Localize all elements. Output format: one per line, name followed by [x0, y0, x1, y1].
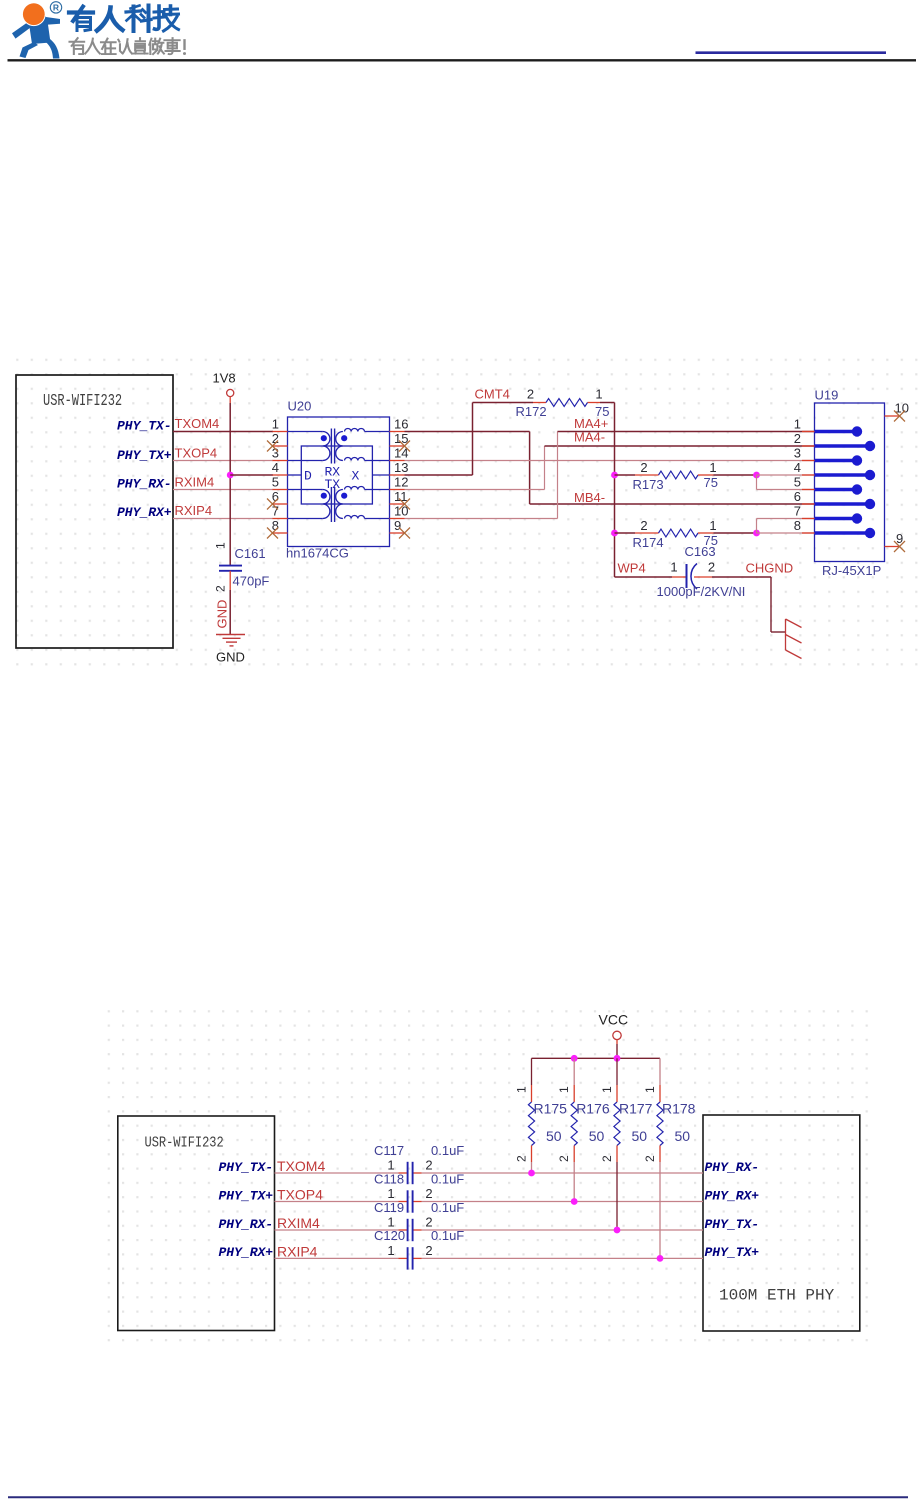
svg-text:2: 2 [425, 1186, 432, 1201]
svg-text:PHY_RX+: PHY_RX+ [219, 1245, 274, 1260]
U19 pin numbers 1-8 [794, 416, 801, 533]
svg-text:2: 2 [515, 1155, 529, 1162]
svg-text:0.1uF: 0.1uF [431, 1143, 464, 1158]
wire MA4+ [558, 431, 815, 433]
svg-text:hn1674CG: hn1674CG [286, 546, 349, 561]
wire RXIM4 [173, 489, 273, 491]
resistor R177 [614, 1058, 620, 1230]
svg-text:PHY_TX-: PHY_TX- [705, 1217, 760, 1232]
wire CMT4 [473, 402, 615, 404]
svg-text:C118: C118 [374, 1171, 404, 1186]
junction CMT4/R173 [611, 472, 618, 479]
wire RXIP4 (lower) right segment [413, 1257, 703, 1259]
wire C161 to GND [229, 590, 231, 634]
C118 pin numbers [387, 1186, 432, 1201]
svg-text:R174: R174 [633, 535, 664, 550]
svg-text:1: 1 [387, 1243, 394, 1258]
svg-text:C120: C120 [374, 1228, 405, 1243]
R174 pin numbers [640, 518, 716, 533]
svg-text:1: 1 [709, 460, 716, 475]
C161 pin numbers [214, 542, 228, 592]
capacitor C163 [687, 564, 698, 590]
svg-text:GND: GND [216, 650, 245, 665]
svg-text:7: 7 [794, 503, 801, 518]
svg-text:TX: TX [325, 477, 341, 492]
junction R174 out [753, 530, 760, 537]
svg-text:1: 1 [515, 1086, 529, 1093]
wire pin16 to MB4- vertical [405, 432, 530, 505]
power port VCC [599, 1012, 629, 1045]
logo slogan 有人在认真做事 [70, 38, 187, 55]
svg-text:4: 4 [794, 460, 801, 475]
svg-text:2: 2 [640, 460, 647, 475]
C163 pin numbers [670, 560, 715, 575]
C117 pin numbers [387, 1158, 432, 1173]
svg-text:12: 12 [394, 474, 408, 489]
svg-text:1: 1 [272, 416, 279, 431]
module box USR-WIFI232 (lower) [118, 1116, 275, 1331]
U20 left pin stubs [273, 432, 288, 534]
svg-text:C119: C119 [374, 1200, 404, 1215]
junction CMT4/R174 [611, 530, 618, 537]
svg-text:RJ-45X1P: RJ-45X1P [822, 563, 881, 578]
svg-text:TXOP4: TXOP4 [175, 446, 218, 461]
svg-text:5: 5 [272, 474, 279, 489]
connector U19 RJ-45X1P body [815, 403, 885, 562]
wire RXIP4 [173, 518, 273, 520]
capacitor C118 [408, 1190, 413, 1212]
logo registered trademark symbol [50, 2, 61, 13]
svg-text:5: 5 [794, 474, 801, 489]
svg-text:PHY_TX-: PHY_TX- [117, 419, 172, 434]
svg-text:X: X [352, 469, 360, 484]
U20 no-connect X pin11 [399, 499, 410, 510]
svg-text:PHY_TX-: PHY_TX- [219, 1160, 274, 1175]
svg-text:WP4: WP4 [618, 561, 646, 576]
junction rail/R177 [614, 1055, 621, 1062]
U19 no-connect X pin10 [894, 411, 905, 422]
svg-text:3: 3 [794, 445, 801, 460]
svg-text:50: 50 [546, 1128, 562, 1144]
wire TXOP4 [173, 460, 273, 462]
svg-text:7: 7 [272, 503, 279, 518]
svg-text:MB4-: MB4- [574, 490, 605, 505]
svg-text:2: 2 [708, 560, 715, 575]
R177 pin numbers [600, 1086, 614, 1162]
svg-text:TXOM4: TXOM4 [277, 1158, 325, 1174]
svg-text:1: 1 [794, 416, 801, 431]
svg-text:R176: R176 [576, 1101, 610, 1117]
logo person icon [12, 2, 60, 58]
svg-text:0.1uF: 0.1uF [431, 1228, 464, 1243]
U20 no-connect X pin2 [267, 441, 278, 452]
svg-text:9: 9 [394, 518, 401, 533]
U20 no-connect X pin15 [399, 441, 410, 452]
wire R173 branch to RJ45 pin5 [757, 475, 815, 490]
svg-text:PHY_RX+: PHY_RX+ [705, 1188, 760, 1203]
wire pin10 to MA4+ [405, 432, 558, 519]
svg-text:2: 2 [527, 387, 534, 402]
svg-text:8: 8 [794, 518, 801, 533]
svg-text:2: 2 [214, 585, 228, 592]
svg-text:PHY_RX-: PHY_RX- [219, 1217, 274, 1232]
svg-text:RXIM4: RXIM4 [175, 475, 215, 490]
junction R173 out [753, 472, 760, 479]
wire MB4- [530, 503, 815, 505]
ground symbol GND [216, 635, 245, 646]
svg-text:PHY_RX-: PHY_RX- [705, 1160, 760, 1175]
svg-text:50: 50 [632, 1128, 648, 1144]
svg-text:2: 2 [425, 1158, 432, 1173]
U20 no-connect X pin8 [267, 528, 278, 539]
svg-text:3: 3 [272, 445, 279, 460]
svg-text:2: 2 [557, 1155, 571, 1162]
svg-text:R175: R175 [534, 1101, 568, 1117]
header blue underline [696, 51, 887, 54]
C120 pin numbers [387, 1243, 432, 1258]
svg-text:USR-WIFI232: USR-WIFI232 [43, 392, 122, 411]
wire VCC rail [532, 1057, 661, 1059]
R176 pin numbers [557, 1086, 571, 1162]
wire RXIM4 (lower) left segment [275, 1229, 408, 1231]
svg-text:1: 1 [557, 1086, 571, 1093]
footer rule [8, 1496, 908, 1498]
svg-text:RXIP4: RXIP4 [175, 503, 213, 518]
wire MA4- [545, 445, 815, 447]
svg-text:U19: U19 [815, 388, 839, 403]
svg-text:50: 50 [675, 1128, 691, 1144]
U19 left pin stubs [802, 432, 815, 534]
wire pin4 center tap [230, 474, 273, 476]
wire RXIP4 (lower) left segment [275, 1257, 408, 1259]
chassis ground symbol [786, 619, 802, 659]
svg-text:RXIM4: RXIM4 [277, 1215, 320, 1231]
svg-text:1: 1 [595, 387, 602, 402]
svg-text:RXIP4: RXIP4 [277, 1244, 318, 1260]
svg-text:1: 1 [643, 1086, 657, 1093]
wire pin14 to RJ45 pin3 [405, 460, 815, 462]
svg-text:VCC: VCC [599, 1012, 629, 1028]
wire 1V8 vertical [229, 403, 231, 565]
wire R173 to RJ45 pin4 [757, 474, 815, 476]
U20 right pin stubs [390, 432, 405, 534]
wire CMT4 vertical to WP4 [614, 403, 616, 578]
svg-text:CMT4: CMT4 [475, 387, 510, 402]
svg-text:1: 1 [709, 518, 716, 533]
svg-text:1000pF/2KV/NI: 1000pF/2KV/NI [657, 584, 746, 599]
svg-text:U20: U20 [288, 399, 312, 414]
svg-text:PHY_TX+: PHY_TX+ [117, 448, 172, 463]
R175 pin numbers [515, 1086, 529, 1162]
logo text 有人科技 [69, 6, 179, 32]
svg-text:1: 1 [387, 1158, 394, 1173]
resistor R175 [528, 1058, 534, 1173]
wire pin13 up to CMT4 [405, 403, 473, 476]
transformer U20 body [288, 417, 390, 547]
svg-text:R172: R172 [516, 404, 547, 419]
svg-text:1: 1 [387, 1186, 394, 1201]
svg-text:R178: R178 [662, 1101, 696, 1117]
svg-text:1: 1 [670, 560, 677, 575]
power port 1V8 [213, 371, 236, 404]
svg-text:GND: GND [215, 600, 230, 629]
svg-text:C163: C163 [685, 544, 716, 559]
U20 right pin numbers 16-9 [394, 416, 408, 533]
wire RXIM4 (lower) right segment [413, 1229, 703, 1231]
junction R178 / wire [657, 1255, 664, 1262]
wire TXOP4 (lower) left segment [275, 1201, 408, 1203]
R172 pin numbers [527, 387, 603, 402]
svg-text:USR-WIFI232: USR-WIFI232 [145, 1135, 224, 1152]
U19 pin 9 stub [885, 546, 900, 548]
module box 100M ETH PHY [703, 1115, 860, 1331]
svg-text:6: 6 [794, 489, 801, 504]
capacitor C161 [219, 566, 242, 590]
wire VCC drop [616, 1044, 618, 1058]
junction R177 / wire [614, 1227, 621, 1234]
C119 pin numbers [387, 1215, 432, 1230]
svg-text:CHGND: CHGND [746, 561, 794, 576]
svg-text:1: 1 [214, 542, 228, 549]
header rule [8, 59, 917, 61]
junction R175 / wire [528, 1170, 535, 1177]
wire TXOM4 (lower) right segment [413, 1172, 703, 1174]
svg-text:100M ETH PHY: 100M ETH PHY [719, 1287, 835, 1305]
resistor R178 [657, 1058, 663, 1258]
svg-text:1: 1 [600, 1086, 614, 1093]
resistor R176 [571, 1058, 577, 1201]
svg-text:2: 2 [425, 1243, 432, 1258]
R178 pin numbers [643, 1086, 657, 1162]
svg-text:TXOP4: TXOP4 [277, 1187, 323, 1203]
capacitor C120 [408, 1247, 413, 1269]
svg-text:PHY_RX+: PHY_RX+ [117, 505, 172, 520]
svg-text:2: 2 [640, 518, 647, 533]
svg-text:MA4+: MA4+ [574, 416, 608, 431]
svg-text:R173: R173 [633, 477, 664, 492]
junction R176 / wire [571, 1198, 578, 1205]
svg-text:75: 75 [704, 475, 718, 490]
svg-text:470pF: 470pF [233, 574, 270, 589]
svg-text:R177: R177 [619, 1101, 653, 1117]
U20 no-connect X pin6 [267, 499, 278, 510]
svg-text:C161: C161 [235, 546, 266, 561]
svg-text:TXOM4: TXOM4 [175, 416, 220, 431]
wire R174 to RJ45 pin8 [757, 532, 815, 534]
svg-text:13: 13 [394, 460, 408, 475]
svg-text:C117: C117 [374, 1143, 404, 1158]
svg-text:2: 2 [794, 431, 801, 446]
capacitor C119 [408, 1219, 413, 1241]
svg-text:1V8: 1V8 [213, 371, 236, 386]
svg-text:0.1uF: 0.1uF [431, 1171, 464, 1186]
svg-text:2: 2 [600, 1155, 614, 1162]
svg-text:11: 11 [394, 489, 408, 504]
U20 left pin numbers 1-8 [272, 416, 279, 533]
wire pin12 to MA4- [405, 446, 545, 490]
wire C163 to CHGND [694, 577, 786, 632]
U20 no-connect X pin9 [399, 528, 410, 539]
module box USR-WIFI232 (upper) [16, 375, 173, 648]
junction rail/R176 [571, 1055, 578, 1062]
resistor R173 [615, 471, 757, 479]
wire TXOM4 [173, 431, 273, 433]
svg-text:PHY_TX+: PHY_TX+ [705, 1245, 760, 1260]
svg-text:0.1uF: 0.1uF [431, 1200, 464, 1215]
U19 no-connect X pin9 [894, 541, 905, 552]
svg-text:50: 50 [589, 1128, 605, 1144]
U19 pin 10 stub [885, 415, 900, 417]
wire TXOM4 (lower) left segment [275, 1172, 408, 1174]
svg-text:16: 16 [394, 416, 408, 431]
wire WP4 to C163 [615, 576, 687, 578]
svg-text:PHY_RX-: PHY_RX- [117, 477, 172, 492]
wire TXOP4 (lower) right segment [413, 1201, 703, 1203]
svg-text:D: D [304, 469, 312, 484]
svg-text:2: 2 [643, 1155, 657, 1162]
capacitor C117 [408, 1162, 413, 1184]
R173 pin numbers [640, 460, 716, 475]
svg-text:R: R [53, 2, 59, 12]
svg-text:PHY_TX+: PHY_TX+ [219, 1188, 274, 1203]
wire R174 branch to RJ45 pin7 [757, 519, 815, 534]
resistor R172 [533, 399, 600, 407]
svg-text:4: 4 [272, 460, 279, 475]
junction 1V8 / pin4 wire [227, 472, 234, 479]
resistor R174 [615, 529, 757, 537]
